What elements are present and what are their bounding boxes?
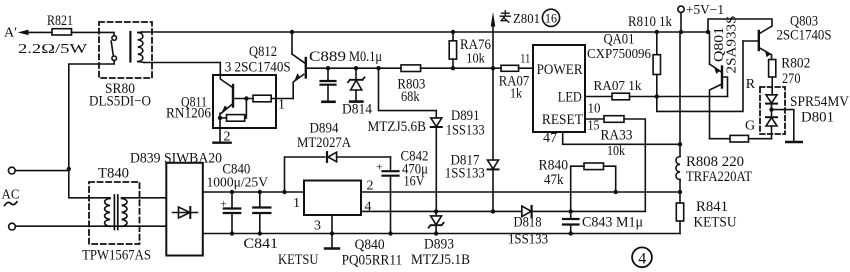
transformer T840 dashed box <box>82 166 151 264</box>
svg-text:47: 47 <box>543 130 557 145</box>
node A' terminal arrow <box>4 26 52 41</box>
svg-text:R: R <box>746 77 756 92</box>
svg-text:1k: 1k <box>510 87 522 102</box>
svg-text:10: 10 <box>588 101 601 116</box>
svg-text:2.2Ω/5W: 2.2Ω/5W <box>18 42 88 57</box>
node pin47 wire junction <box>678 142 682 146</box>
relay SR80 contact <box>111 36 116 61</box>
svg-text:RA07 1k: RA07 1k <box>594 79 642 94</box>
svg-text:15: 15 <box>588 118 600 133</box>
wire relay coil to Q811 pin3 <box>144 63 220 76</box>
svg-text:4: 4 <box>638 250 646 267</box>
node D814 junction <box>354 66 358 70</box>
svg-text:TRFA220AT: TRFA220AT <box>686 169 752 185</box>
wire bridge+ to Q840 pin 1 <box>203 192 304 211</box>
node RA76 top on bus <box>451 30 455 34</box>
svg-text:1SS133: 1SS133 <box>445 166 485 182</box>
node R840 right on output wire <box>614 190 618 194</box>
resistor RA33 10k <box>601 116 646 212</box>
svg-text:QA01: QA01 <box>604 32 635 48</box>
svg-text:+: + <box>376 160 383 174</box>
svg-text:+: + <box>220 197 227 211</box>
svg-text:SPR54MV: SPR54MV <box>790 94 849 110</box>
node to Z801 pin16 arrow <box>491 9 560 68</box>
wire IC pin 15 RESET <box>585 118 604 133</box>
power +5V-1 terminal <box>678 3 724 32</box>
node C843 bottom on bus <box>569 231 573 235</box>
svg-text:16: 16 <box>545 12 557 26</box>
svg-text:Q840: Q840 <box>355 237 385 253</box>
regulator Q840 PQ05RR11 box <box>304 181 402 269</box>
diode D891 1SS133 <box>431 108 485 211</box>
zener diode D893 MTZJ5.1B <box>411 211 470 268</box>
wire relay contact down to AC line <box>69 61 114 169</box>
svg-text:11: 11 <box>520 51 530 66</box>
resistor R802 270 <box>769 55 811 95</box>
svg-text:KETSU: KETSU <box>278 252 319 268</box>
node RA76 bottom <box>451 66 455 70</box>
wire AC bottom to bridge <box>15 225 166 227</box>
resistor green drive <box>710 135 772 142</box>
node D893 top <box>434 209 438 213</box>
svg-text:MT2027A: MT2027A <box>297 135 351 151</box>
resistor R821 <box>18 13 88 57</box>
svg-text:POWER: POWER <box>537 62 583 78</box>
svg-text:G: G <box>745 119 755 134</box>
svg-text:D839 SIWBA20: D839 SIWBA20 <box>130 151 222 167</box>
wire AC top to junction <box>15 169 69 171</box>
svg-text:MTZJ5.1B: MTZJ5.1B <box>411 252 470 268</box>
svg-text:Z801: Z801 <box>513 12 540 27</box>
LED D801 red element <box>766 95 777 110</box>
wire Q812 base network <box>306 67 401 69</box>
LED D801 green element <box>766 110 777 139</box>
svg-text:RA33: RA33 <box>601 127 633 143</box>
resistor R803 <box>397 65 501 105</box>
svg-text:DLS5DI−O: DLS5DI−O <box>89 93 151 109</box>
svg-text:+5V−1: +5V−1 <box>686 3 724 18</box>
svg-text:A′: A′ <box>4 26 17 41</box>
svg-text:AC: AC <box>2 188 20 203</box>
node LED centre tap <box>769 107 773 111</box>
svg-text:1SS133: 1SS133 <box>508 231 548 247</box>
resistor R840 47k <box>539 158 616 212</box>
svg-text:TPW1567AS: TPW1567AS <box>82 247 151 263</box>
capacitor C841 <box>244 192 319 268</box>
svg-text:3: 3 <box>314 219 321 234</box>
transistor Q812 <box>225 32 306 99</box>
diode D894 MT2027A <box>285 121 391 192</box>
AC input terminals <box>2 167 20 230</box>
fusible resistor R808 220 TRFA220AT <box>676 32 752 185</box>
node Z801/RA07/D817 junction <box>491 66 495 70</box>
wire R821 to relay switch <box>72 32 115 35</box>
svg-text:LED: LED <box>558 90 582 106</box>
relay SR80 dashed box <box>89 22 152 109</box>
capacitor C843 M1u <box>563 211 643 233</box>
svg-text:C841: C841 <box>244 236 279 252</box>
svg-text:C843 M1μ: C843 M1μ <box>582 215 643 231</box>
svg-text:D801: D801 <box>801 110 834 126</box>
wire secondary top to bridge <box>122 197 167 200</box>
transformer T840 core <box>114 195 117 230</box>
svg-text:Q812: Q812 <box>249 44 277 60</box>
wire bus corner to Q803 collector <box>708 19 772 33</box>
diode D817 1SS133 <box>445 68 499 211</box>
wire to Q803 base <box>657 41 743 111</box>
node C889 junction <box>326 66 330 70</box>
wire Q840 pin 4 <box>361 200 522 215</box>
svg-text:47k: 47k <box>544 172 564 188</box>
zener diode D814 MTZJ5.6B <box>342 68 373 117</box>
svg-text:PQ05RR11: PQ05RR11 <box>342 252 403 268</box>
wire junction down to transformer primary <box>69 169 110 198</box>
+5V top bus wire <box>142 31 708 33</box>
node pin3 on bus <box>330 231 334 235</box>
diode D818 1SS133 <box>508 206 645 247</box>
node AC top junction <box>67 167 71 171</box>
resistor R841 KETSU <box>676 180 737 234</box>
resistor R810 1k <box>628 14 673 97</box>
svg-text:T840: T840 <box>98 166 129 182</box>
svg-text:2SA933S: 2SA933S <box>724 16 739 74</box>
resistor RA76 <box>449 32 491 68</box>
svg-text:C889: C889 <box>309 49 346 65</box>
capacitor C842 470u 16V <box>376 149 429 234</box>
svg-text:RN1206: RN1206 <box>166 106 211 122</box>
svg-text:10k: 10k <box>466 51 485 66</box>
ground LED centre tap <box>772 110 802 142</box>
svg-text:1000μ/25V: 1000μ/25V <box>207 175 269 190</box>
svg-text:2: 2 <box>224 130 231 145</box>
ground Q840 pin 3 <box>314 215 339 249</box>
capacitor C840 1000u/25V <box>207 162 269 234</box>
resistor R1 internal Q811 base <box>233 95 293 102</box>
svg-text:R841: R841 <box>696 199 728 215</box>
transistor Q803 2SC1740S <box>743 13 832 57</box>
svg-text:KETSU: KETSU <box>694 215 737 231</box>
resistor R2 internal Q811 base-emitter <box>220 99 246 122</box>
svg-text:CXP750096: CXP750096 <box>587 47 651 62</box>
svg-text:D814: D814 <box>342 102 373 118</box>
svg-text:2SC1740S: 2SC1740S <box>777 27 832 43</box>
node D894 branch <box>282 190 286 194</box>
wire IC pin 47 <box>543 130 680 145</box>
svg-text:M0.1μ: M0.1μ <box>349 49 382 65</box>
svg-text:10k: 10k <box>607 144 625 159</box>
transformer T840 secondary <box>122 198 127 226</box>
node D891 branch junction <box>376 66 380 70</box>
node D817 bottom <box>491 209 495 213</box>
svg-text:2: 2 <box>367 179 374 194</box>
node R840/D818/C843 junction <box>569 209 573 213</box>
node page number 4 <box>632 247 652 267</box>
svg-text:R802: R802 <box>781 55 810 71</box>
node Q811 base junction <box>244 96 248 100</box>
svg-text:1: 1 <box>278 98 285 113</box>
node C842 on ground bus <box>388 231 392 235</box>
svg-text:3 2SC1740S: 3 2SC1740S <box>225 60 291 76</box>
wire ground bus <box>203 233 680 235</box>
svg-text:1: 1 <box>293 196 300 211</box>
transistor Q811 RN1206 box <box>166 75 276 128</box>
svg-text:RESET: RESET <box>542 112 583 128</box>
transistor Q801 2SA933S <box>710 16 739 139</box>
svg-text:R810 1k: R810 1k <box>628 14 673 30</box>
svg-text:16V: 16V <box>404 174 425 190</box>
capacitor C889 <box>309 49 382 102</box>
svg-text:D893: D893 <box>424 237 454 253</box>
wire IC pin 10 LED <box>585 97 612 116</box>
svg-text:R821: R821 <box>47 13 73 29</box>
node RA07/R810 junction <box>655 94 659 98</box>
svg-text:68k: 68k <box>401 89 420 105</box>
transistor Q811 internal symbol <box>220 75 233 128</box>
svg-text:1SS133: 1SS133 <box>446 122 485 138</box>
bridge rectifier D839 <box>130 151 222 256</box>
svg-text:MTZJ5.6B: MTZJ5.6B <box>368 119 427 135</box>
svg-text:D818: D818 <box>514 214 542 230</box>
node Q812 collector on bus <box>290 30 294 34</box>
svg-text:4: 4 <box>365 200 372 215</box>
relay SR80 coil <box>130 32 144 63</box>
node D893 bottom on bus <box>434 231 438 235</box>
LED D801 SPR54MV dashed box <box>745 77 849 134</box>
transformer T840 primary <box>105 198 110 226</box>
svg-text:270: 270 <box>782 71 801 87</box>
wire Q840 pin 2 output <box>361 179 682 195</box>
node Q811 emitter junction <box>218 116 222 120</box>
resistor RA07 1k (pin 10) <box>594 79 728 100</box>
svg-text:R808 220: R808 220 <box>686 154 744 170</box>
wire branch to D891 <box>379 68 437 118</box>
resistor RA07 1k (pin 11) <box>499 51 533 102</box>
op-amp U1: IC QA01 CXP750096 box <box>533 32 651 133</box>
ground Q811 pin 2 <box>213 128 230 145</box>
